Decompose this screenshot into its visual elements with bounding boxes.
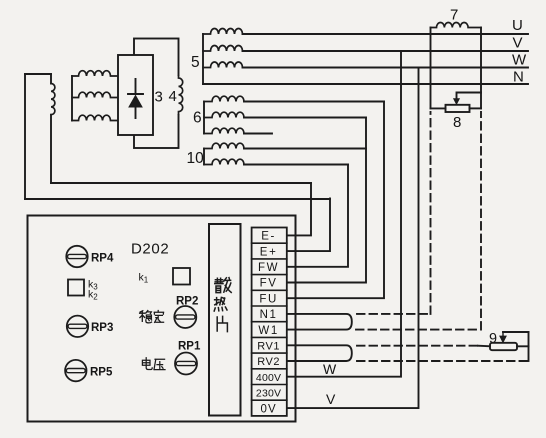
wire pot 9 left lead — [478, 345, 490, 348]
svg-text:FU: FU — [259, 293, 278, 305]
wire V line — [243, 50, 529, 52]
svg-text:RP4: RP4 — [91, 253, 114, 265]
svg-text:FW: FW — [258, 262, 279, 274]
node group-6 bus — [203, 102, 205, 134]
svg-text:230V: 230V — [256, 388, 281, 400]
svg-text:N: N — [513, 69, 524, 86]
relay k1 box — [173, 268, 190, 285]
inductor 10 winding 1 — [204, 143, 244, 148]
inductor left winding (vertical coil) — [51, 84, 55, 115]
svg-text:6: 6 — [193, 110, 202, 127]
dashed wire N1 to pot 8 left — [357, 112, 431, 314]
potentiometer RP5 — [65, 360, 86, 381]
svg-text:FV: FV — [260, 278, 278, 290]
wire from 6-2 to FV riser — [244, 117, 366, 119]
svg-text:E+: E+ — [260, 246, 278, 258]
svg-text:3: 3 — [155, 89, 163, 106]
arrow pot 8 wiper — [454, 99, 460, 105]
wire pot 8 right lead — [470, 107, 482, 109]
svg-text:10: 10 — [187, 150, 205, 167]
inductor rectifier input phase 1 — [72, 71, 118, 76]
wire pot 9 right lead — [517, 345, 529, 347]
node group-10 bus — [203, 149, 205, 165]
rectifier box 3 — [118, 55, 153, 135]
svg-text:0V: 0V — [261, 403, 277, 415]
svg-text:4: 4 — [169, 88, 177, 105]
node group-5 bus — [202, 34, 204, 84]
arrow pot 9 wiper — [500, 332, 506, 342]
box component 4 outline — [134, 39, 179, 149]
wire W-line riser to 0V — [287, 68, 419, 409]
svg-text:RP1: RP1 — [178, 341, 201, 353]
heat sink box — [209, 224, 241, 416]
potentiometer 9 body — [490, 343, 517, 350]
wire N line — [203, 83, 528, 85]
wire E- riser — [287, 183, 311, 235]
inductor rectifier input phase 3 — [72, 115, 118, 120]
wire 6-3 stub — [244, 133, 272, 135]
wire 7 right bracket down to pot 8 — [480, 28, 482, 109]
svg-text:5: 5 — [191, 54, 200, 71]
inductor 7 winding — [431, 23, 482, 28]
wire left-loop left vertical — [24, 74, 26, 199]
svg-text:D202: D202 — [131, 241, 169, 258]
inductor 5 phase V winding — [203, 46, 243, 51]
inductor 5 phase W winding — [203, 62, 243, 67]
potentiometer RP2 — [174, 306, 196, 328]
svg-text:7: 7 — [450, 7, 458, 24]
inductor rectifier input phase 2 — [72, 92, 118, 97]
inductor 6 winding 3 — [204, 128, 244, 133]
wire from 10-1 joining FV riser — [244, 148, 366, 150]
diode inside rectifier — [128, 79, 143, 118]
svg-text:8: 8 — [453, 114, 461, 131]
wire 7 left bracket down to pot 8 — [430, 28, 432, 109]
node rectifier input bus — [71, 76, 73, 121]
svg-text:RP3: RP3 — [91, 322, 113, 334]
wire pot 9 wiper top link — [503, 331, 529, 333]
wire pot 8 wiper link — [457, 93, 482, 100]
wire E+ riser — [287, 199, 330, 252]
potentiometer RP1 — [175, 353, 197, 375]
svg-text:400V: 400V — [256, 372, 281, 384]
label sanrepian (heat sink) hanzi vertical — [215, 278, 231, 293]
inductor 5 phase U winding — [203, 29, 243, 34]
svg-text:E-: E- — [261, 231, 276, 243]
svg-text:N1: N1 — [260, 309, 278, 321]
dashed wire RV2 to pot 9 wiper net — [357, 360, 529, 362]
regulator enclosure box — [28, 216, 296, 422]
wire from 10-2 to FW riser — [244, 164, 348, 166]
wire left-loop right vertical lower — [50, 115, 52, 183]
wire E+ line from left loop — [25, 198, 330, 200]
svg-text:RP5: RP5 — [90, 367, 113, 379]
svg-text:RV2: RV2 — [257, 356, 280, 368]
potentiometer RP3 — [67, 316, 88, 337]
svg-text:V: V — [513, 35, 523, 52]
wire FV riser — [287, 118, 366, 283]
wire W line — [243, 67, 529, 69]
wire E- line from left loop — [51, 182, 311, 184]
svg-text:W: W — [323, 361, 337, 377]
dashed wire W1 to pot 8 right — [356, 112, 481, 330]
inductor 6 winding 2 — [204, 112, 244, 117]
svg-text:RV1: RV1 — [257, 341, 280, 353]
terminal labels — [256, 231, 281, 416]
wire V-line riser to 400V — [287, 51, 401, 377]
label dianya (voltage) hanzi — [142, 358, 152, 370]
svg-text:W1: W1 — [258, 325, 278, 337]
terminal strip outline — [252, 228, 287, 416]
relay k3k2 box — [68, 280, 84, 296]
inductor 6 winding 1 — [204, 96, 244, 101]
svg-text:W: W — [512, 52, 527, 69]
potentiometer 8 body — [446, 105, 470, 112]
wire FU riser — [287, 102, 384, 299]
inductor 4 winding on right edge — [170, 76, 183, 114]
svg-text:k1: k1 — [139, 272, 149, 285]
inductor 10 winding 2 — [204, 159, 244, 164]
wire pot 8 left lead — [431, 107, 446, 109]
terminal separators — [252, 243, 287, 400]
wire FW riser — [287, 165, 348, 267]
svg-text:U: U — [512, 17, 523, 34]
jumper capsule RV1-RV2 — [287, 345, 352, 361]
dashed wire RV1 to pot 9 — [357, 345, 478, 347]
svg-text:V: V — [326, 391, 336, 407]
wire left-loop top horizontal — [25, 73, 51, 75]
wire from 6-1 to FU riser — [244, 101, 384, 103]
label wending (stable) hanzi — [140, 311, 152, 323]
jumper capsule N1-W1 — [287, 314, 352, 330]
wire left-loop right vertical upper — [50, 74, 52, 84]
wire U line — [243, 33, 529, 35]
potentiometer RP4 — [66, 246, 87, 267]
wire pot 9 right bracket — [528, 332, 530, 361]
